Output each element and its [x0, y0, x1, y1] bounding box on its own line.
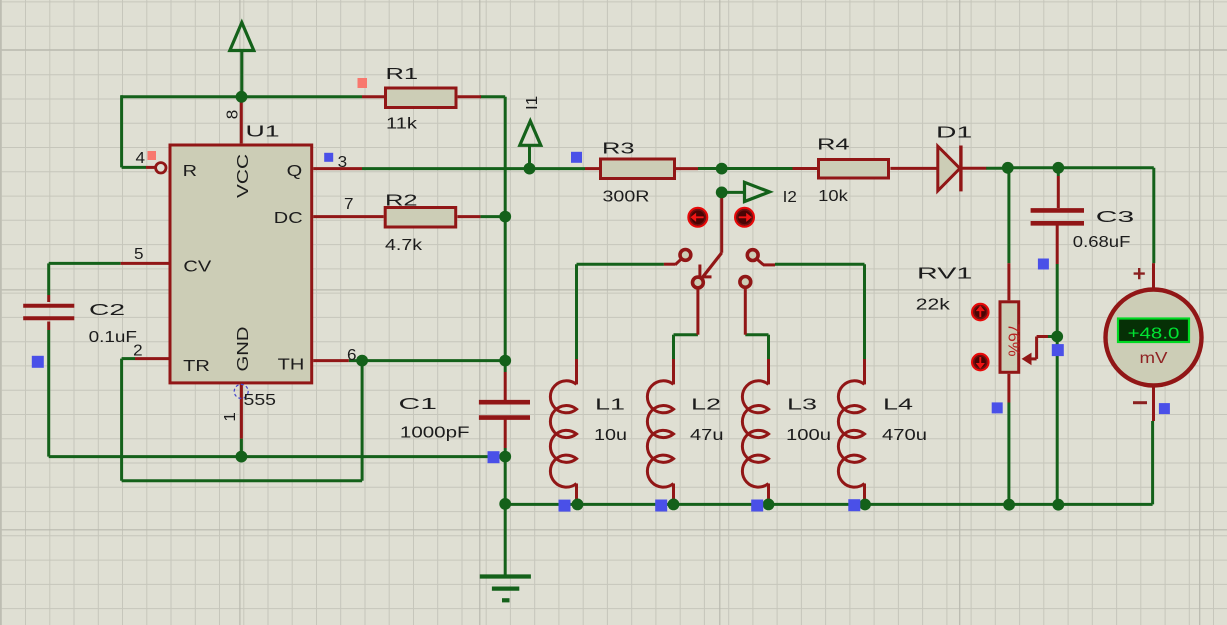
- svg-text:DC: DC: [274, 210, 303, 227]
- svg-text:3: 3: [338, 154, 348, 171]
- svg-text:C2: C2: [89, 302, 125, 319]
- svg-text:C3: C3: [1096, 209, 1135, 226]
- svg-text:L1: L1: [595, 397, 625, 414]
- svg-text:D1: D1: [936, 124, 972, 141]
- svg-text:4: 4: [136, 150, 146, 167]
- svg-text:VCC: VCC: [235, 154, 252, 198]
- svg-text:U1: U1: [246, 124, 280, 141]
- svg-text:GND: GND: [235, 327, 252, 372]
- svg-text:R3: R3: [602, 141, 635, 158]
- svg-text:47u: 47u: [690, 427, 724, 444]
- svg-text:+48.0: +48.0: [1128, 325, 1180, 342]
- svg-text:R1: R1: [386, 66, 419, 83]
- svg-text:0.68uF: 0.68uF: [1073, 234, 1131, 251]
- svg-text:2: 2: [133, 343, 143, 360]
- svg-text:TR: TR: [183, 358, 210, 375]
- svg-text:1000pF: 1000pF: [400, 425, 470, 442]
- svg-text:10u: 10u: [594, 427, 627, 444]
- svg-text:R4: R4: [817, 137, 850, 154]
- svg-text:8: 8: [224, 110, 241, 120]
- svg-text:RV1: RV1: [917, 266, 972, 283]
- svg-text:I2: I2: [783, 189, 797, 206]
- svg-text:100u: 100u: [786, 427, 831, 444]
- svg-text:R: R: [183, 163, 197, 180]
- svg-text:C1: C1: [399, 396, 438, 413]
- svg-text:5: 5: [134, 246, 144, 263]
- svg-text:CV: CV: [183, 258, 211, 275]
- svg-text:555: 555: [244, 392, 277, 409]
- svg-text:TH: TH: [278, 357, 305, 374]
- svg-text:10k: 10k: [818, 188, 849, 205]
- svg-text:1: 1: [222, 412, 239, 422]
- svg-text:I1: I1: [524, 96, 541, 110]
- svg-text:L2: L2: [691, 397, 721, 414]
- svg-text:22k: 22k: [916, 296, 951, 313]
- svg-text:mV: mV: [1140, 350, 1168, 367]
- svg-text:L3: L3: [787, 397, 817, 414]
- svg-text:300R: 300R: [603, 189, 650, 206]
- svg-text:4.7k: 4.7k: [385, 237, 423, 254]
- svg-text:470u: 470u: [882, 427, 927, 444]
- svg-text:11k: 11k: [386, 116, 418, 133]
- svg-text:L4: L4: [883, 397, 913, 414]
- svg-text:R2: R2: [385, 193, 418, 210]
- svg-text:76%: 76%: [1005, 324, 1022, 357]
- svg-text:0.1uF: 0.1uF: [89, 329, 138, 346]
- svg-text:6: 6: [347, 347, 357, 364]
- svg-text:7: 7: [344, 196, 354, 213]
- svg-text:Q: Q: [287, 163, 303, 180]
